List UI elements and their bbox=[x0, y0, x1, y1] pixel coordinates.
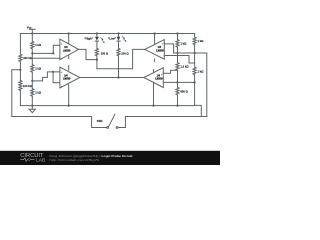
wire right probe line bbox=[206, 53, 208, 117]
resistor R9 1.2k bbox=[176, 63, 179, 71]
svg-text:100 Ω: 100 Ω bbox=[101, 51, 109, 55]
node op1 out / R6 bbox=[96, 59, 98, 61]
svg-text:LM339: LM339 bbox=[63, 78, 71, 81]
svg-text:+: + bbox=[161, 72, 163, 76]
wire net 53 bbox=[174, 52, 207, 54]
wire right col1 top bbox=[177, 34, 179, 40]
node col2/82 bbox=[194, 81, 196, 83]
node B bbox=[31, 80, 33, 82]
resistor R3 1k bbox=[31, 41, 34, 49]
wire op1 V- stub bbox=[68, 55, 70, 59]
wire op1 V+ stub bbox=[68, 34, 70, 45]
wire to op2 minus bbox=[53, 72, 60, 83]
LED D2 Low bbox=[117, 34, 127, 49]
node R7 to low line bbox=[117, 76, 119, 78]
wire op4 V- to ground bus bbox=[153, 83, 155, 106]
resistor R12 1k bbox=[193, 67, 196, 75]
svg-text:1 kΩ: 1 kΩ bbox=[198, 39, 205, 43]
svg-text:LM339: LM339 bbox=[155, 78, 163, 81]
wire op4 minus input line bbox=[163, 81, 194, 83]
svg-text:100 kΩ: 100 kΩ bbox=[23, 84, 33, 88]
ground bbox=[29, 106, 35, 113]
node op1 minus tee bbox=[52, 52, 54, 54]
svg-text:http://circuitlab.com/c5tg7b: http://circuitlab.com/c5tg7b bbox=[49, 158, 99, 162]
resistor R4 1k bbox=[31, 65, 34, 73]
LED D1 High bbox=[95, 34, 105, 49]
svg-text:“Low”: “Low” bbox=[108, 36, 117, 40]
resistor R2 100k lower-left bbox=[19, 80, 22, 90]
resistor R5 1k bbox=[31, 89, 34, 97]
wire op3 V- stub bbox=[154, 59, 156, 62]
svg-text:Logic Probe Circuit: Logic Probe Circuit bbox=[102, 154, 133, 158]
svg-text:LM339: LM339 bbox=[63, 50, 71, 53]
footer bar bbox=[0, 151, 220, 165]
svg-text:LM339: LM339 bbox=[156, 50, 164, 53]
resistor R1 100k upper-left bbox=[19, 54, 22, 62]
node LED D1 bus junction bbox=[96, 32, 98, 34]
wire col1 down to R10 bbox=[177, 82, 179, 87]
svg-text:LAB: LAB bbox=[36, 158, 45, 163]
wire high line to op3 bbox=[97, 49, 145, 68]
svg-text:100 kΩ: 100 kΩ bbox=[23, 56, 33, 60]
svg-text:-: - bbox=[61, 56, 62, 60]
wire op4 V+ stub bbox=[153, 70, 155, 73]
wire node B to op2 inputs bbox=[32, 72, 60, 81]
node op4 V- gnd junction bbox=[152, 105, 154, 107]
svg-text:1 kΩ: 1 kΩ bbox=[180, 42, 187, 46]
resistor R11 1k bbox=[193, 37, 196, 45]
wire left bus down bbox=[19, 34, 21, 55]
wire op3 plus input bbox=[164, 44, 173, 53]
svg-text:“High”: “High” bbox=[84, 37, 93, 41]
wire op3 V+ stub bbox=[154, 34, 156, 45]
svg-text:+: + bbox=[61, 70, 63, 74]
node A bbox=[31, 52, 33, 54]
svg-text:1 kΩ: 1 kΩ bbox=[35, 91, 42, 95]
wire right col2 top corner bbox=[194, 34, 196, 37]
node col1/53 bbox=[176, 52, 178, 54]
op-amp U1 (1/4 LM339 top-left) bbox=[60, 39, 79, 60]
wire bottom probe wire with switch dip bbox=[12, 117, 107, 128]
svg-text:-: - bbox=[160, 84, 161, 88]
node op1 V+ bus junction bbox=[68, 32, 70, 34]
node op2 V- gnd junction bbox=[68, 105, 70, 107]
svg-text:1 kΩ: 1 kΩ bbox=[35, 66, 42, 70]
node op2 plus tee bbox=[52, 71, 54, 73]
svg-text:680 Ω: 680 Ω bbox=[180, 89, 188, 93]
resistor R10 680 bbox=[176, 87, 179, 95]
switch SW1 bbox=[107, 114, 118, 128]
node Vcc junction bbox=[31, 32, 33, 34]
svg-text:+: + bbox=[61, 42, 63, 46]
svg-text:SW1: SW1 bbox=[97, 119, 103, 123]
node col1/82 bbox=[176, 81, 178, 83]
op-amp U3 (1/4 LM339 top-right, points left) bbox=[145, 40, 164, 60]
op-amp U2 (1/4 LM339 bottom-left) bbox=[60, 67, 80, 88]
svg-text:1.2 kΩ: 1.2 kΩ bbox=[180, 65, 189, 69]
wire col1 down to R9 bbox=[177, 53, 179, 63]
Vcc supply symbol bbox=[29, 29, 35, 33]
svg-text:+: + bbox=[162, 42, 164, 46]
wire op2/op4 output line bbox=[80, 77, 144, 79]
svg-text:Vcc: Vcc bbox=[27, 25, 32, 29]
node gnd divider bbox=[31, 105, 33, 107]
wire bottom probe wire right section bbox=[118, 117, 207, 128]
op-amp U4 (1/4 LM339 bottom-right, points left) bbox=[144, 68, 163, 88]
node col2/53 bbox=[194, 52, 196, 54]
resistor R8 1k bbox=[176, 40, 179, 48]
wire col2 bottom jog to probe return bbox=[195, 105, 202, 116]
svg-text:1 kΩ: 1 kΩ bbox=[198, 70, 205, 74]
wire op3 minus input bbox=[164, 56, 194, 64]
wire op4 plus input bbox=[163, 70, 177, 73]
node crossing artifact bbox=[118, 68, 119, 69]
footer logo diamond bbox=[28, 158, 31, 161]
svg-text:1 kΩ: 1 kΩ bbox=[35, 43, 42, 47]
node op3 V+ bus junction bbox=[154, 32, 156, 34]
wire node A to op1 plus bbox=[32, 45, 60, 53]
wire op2 V+ stub bbox=[68, 65, 70, 70]
wire divider column top bbox=[31, 34, 33, 42]
wire probe to frame bbox=[12, 70, 21, 117]
node col1 bus junction bbox=[176, 32, 178, 34]
node probe tap bbox=[19, 69, 21, 71]
wire op2 V- to ground bus bbox=[68, 85, 70, 106]
wire top bus bbox=[20, 33, 194, 35]
wire op1 output bbox=[79, 49, 97, 59]
node LED D2 bus junction bbox=[117, 32, 119, 34]
svg-text:-: - bbox=[161, 55, 162, 59]
svg-text:100 Ω: 100 Ω bbox=[121, 51, 129, 55]
node R10 gnd junction bbox=[176, 105, 178, 107]
resistor R7 100 ohm bbox=[117, 48, 120, 56]
wire ground bus bbox=[20, 105, 194, 107]
resistor R6 100 ohm bbox=[95, 48, 98, 56]
svg-text:-: - bbox=[61, 84, 62, 88]
wire to op1 minus bbox=[32, 57, 60, 59]
